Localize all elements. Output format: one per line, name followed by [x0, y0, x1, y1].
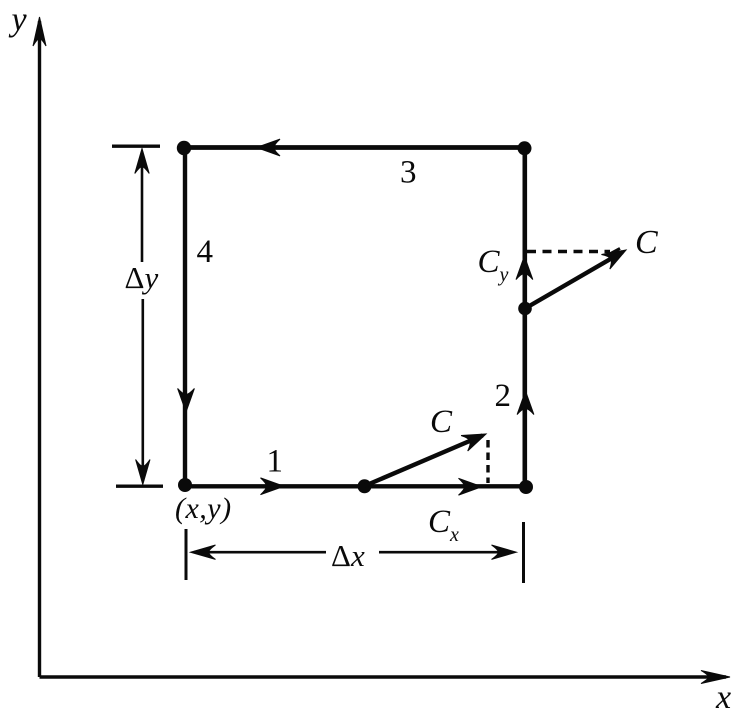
Cx component arrowhead on bottom edge	[459, 478, 483, 495]
svg-text:Cx: Cx	[428, 504, 459, 546]
x-axis	[40, 675, 727, 678]
dashed horizontal component line (Cy projection)	[527, 250, 610, 254]
dashed vertical component line (Cx projection)	[486, 440, 489, 483]
square top edge (side 3)	[184, 145, 525, 150]
dx dimension line right segment	[379, 551, 513, 554]
dy top tick	[112, 144, 160, 147]
svg-text:C: C	[430, 404, 453, 440]
dy bottom tick	[116, 485, 163, 488]
dx left arrowhead	[191, 545, 216, 559]
y-axis	[38, 21, 41, 677]
vector C on right edge	[525, 252, 623, 309]
dashed arrow barb at end of dashed line	[607, 249, 620, 256]
square bottom edge (side 1)	[185, 484, 525, 488]
svg-text:Δy: Δy	[125, 260, 159, 295]
corner dot top-right	[518, 141, 532, 155]
dx left tick	[185, 529, 188, 580]
dy dimension line lower segment	[142, 299, 145, 481]
corner dot top-left	[177, 141, 191, 155]
svg-text:y: y	[9, 2, 28, 39]
dot on bottom edge (tail of vector C)	[358, 479, 372, 493]
Cy component arrowhead (up, on right edge)	[516, 256, 533, 280]
vector C arrowhead (top right)	[601, 243, 630, 269]
corner dot bottom-left	[178, 478, 192, 492]
side 2 direction arrowhead (up)	[517, 391, 534, 415]
dy up arrowhead	[135, 149, 149, 174]
dy down arrowhead	[136, 460, 150, 485]
dot on right edge (tail of vector C)	[518, 302, 532, 316]
dx right arrowhead	[492, 545, 517, 559]
side 1 direction arrowhead (right)	[261, 478, 285, 495]
svg-text:Δx: Δx	[331, 538, 365, 573]
svg-text:2: 2	[495, 378, 512, 414]
dx dimension line left segment	[194, 551, 326, 554]
dx right tick	[522, 522, 525, 583]
y-axis arrowhead	[33, 17, 46, 46]
svg-text:1: 1	[267, 444, 284, 480]
dy dimension line upper segment	[141, 152, 144, 262]
svg-text:x: x	[715, 679, 731, 716]
square right edge (side 2)	[522, 148, 527, 487]
side 3 direction arrowhead (left)	[257, 139, 281, 156]
svg-text:C: C	[635, 224, 658, 261]
square left edge (side 4)	[183, 148, 187, 487]
svg-text:Cy: Cy	[478, 244, 509, 286]
svg-text:4: 4	[197, 234, 214, 270]
vector C on bottom edge	[365, 436, 483, 487]
svg-text:(x,y): (x,y)	[175, 492, 232, 525]
side 4 direction arrowhead (down)	[178, 389, 195, 413]
vector C arrowhead (bottom)	[461, 426, 489, 451]
corner dot bottom-right	[519, 480, 533, 494]
x-axis arrowhead	[701, 671, 730, 684]
svg-text:3: 3	[400, 155, 417, 191]
